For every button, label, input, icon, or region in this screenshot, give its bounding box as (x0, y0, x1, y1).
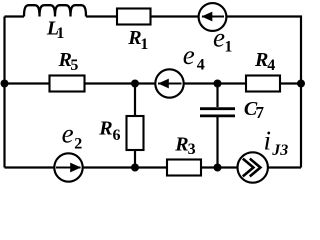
svg-text:e: e (62, 119, 74, 149)
svg-text:4: 4 (267, 57, 275, 74)
svg-text:5: 5 (70, 57, 78, 74)
svg-text:R: R (127, 27, 141, 49)
svg-text:1: 1 (56, 25, 64, 42)
svg-text:R: R (174, 134, 188, 156)
svg-text:4: 4 (197, 56, 205, 73)
svg-text:1: 1 (140, 36, 148, 53)
svg-text:R: R (254, 49, 268, 71)
svg-text:e: e (183, 40, 195, 70)
svg-text:e: e (213, 22, 225, 52)
svg-text:1: 1 (224, 38, 232, 55)
svg-text:7: 7 (256, 103, 265, 122)
svg-text:3: 3 (188, 141, 196, 158)
svg-text:i: i (264, 126, 272, 156)
svg-text:2: 2 (74, 136, 82, 153)
svg-text:6: 6 (113, 127, 121, 144)
svg-text:R: R (98, 118, 112, 140)
svg-text:J3: J3 (271, 142, 288, 159)
